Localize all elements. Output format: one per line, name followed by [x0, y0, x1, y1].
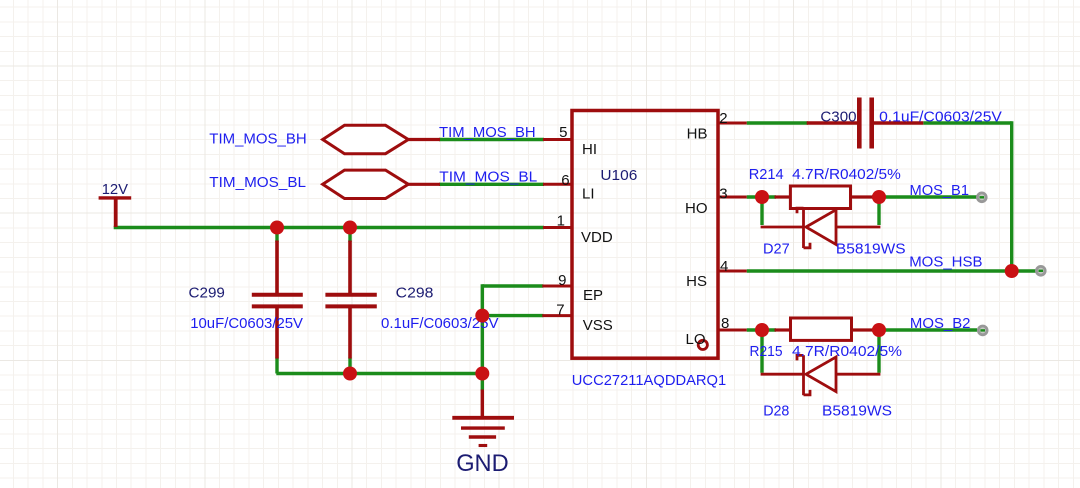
pin number 6 — [561, 172, 569, 189]
wire R214 right to MOS_B1 — [872, 195, 977, 198]
wire ground rail — [276, 372, 482, 375]
pin 3 HO stub — [718, 196, 747, 199]
pin name LI — [582, 186, 595, 203]
pin name HI — [582, 141, 597, 158]
svg-text:MOS_HSB: MOS_HSB — [909, 254, 982, 271]
pin name VDD — [581, 229, 613, 246]
svg-text:EP: EP — [583, 287, 603, 304]
net label TIM_MOS_BL — [439, 169, 537, 186]
pin name HB — [687, 125, 708, 142]
wire HB pin 2 to C300 — [747, 121, 808, 124]
wire TIM_MOS_BH (port to pin 5) — [439, 138, 544, 141]
svg-text:TIM_MOS_BH: TIM_MOS_BH — [209, 131, 306, 148]
svg-text:MOS_B2: MOS_B2 — [910, 315, 971, 332]
svg-text:4.7R/R0402/5%: 4.7R/R0402/5% — [792, 343, 902, 360]
net label TIM_MOS_BH — [439, 124, 536, 141]
pin 1 VDD stub — [543, 226, 572, 229]
port TIM_MOS_BH hexagon — [323, 125, 440, 153]
label 12V power net — [102, 181, 128, 198]
wire TIM_MOS_BL (port to pin 6) — [439, 183, 544, 186]
junction dot ground rail / GND — [475, 367, 489, 381]
pin terminal MOS_HSB — [1036, 266, 1045, 275]
svg-text:GND: GND — [456, 450, 509, 477]
wire D27 left leg — [760, 197, 763, 225]
wire MOS_HSB pin 4 — [747, 269, 1036, 272]
junction dot R215 right — [872, 323, 886, 337]
junction dot VSS wire — [475, 309, 489, 323]
svg-text:4.7R/R0402/5%: 4.7R/R0402/5% — [792, 166, 901, 183]
label R215 value 4.7R/R0402/5% — [792, 343, 902, 360]
pin name VSS — [583, 317, 613, 334]
pin terminal MOS_B1 — [977, 193, 986, 202]
pin number 2 — [719, 110, 727, 127]
svg-text:2: 2 — [719, 110, 727, 127]
wire C298 bottom stub — [348, 358, 351, 374]
capacitor C298 — [325, 241, 376, 359]
pin 6 LI stub — [543, 183, 572, 186]
label C298 value 0.1uF/C0603/25V — [381, 315, 499, 332]
label D28 value B5819WS — [822, 403, 892, 420]
svg-text:9: 9 — [558, 272, 566, 289]
svg-text:B5819WS: B5819WS — [836, 241, 906, 258]
pin number 3 — [719, 185, 727, 202]
pin 5 HI stub — [543, 138, 572, 141]
svg-text:HI: HI — [582, 141, 597, 158]
svg-text:C298: C298 — [396, 284, 434, 301]
resistor R214 — [775, 186, 873, 209]
label C300 value 0.1uF/C0603/25V — [879, 108, 1002, 125]
wire C299 bottom stub — [275, 358, 278, 374]
pin 9 EP stub — [542, 285, 572, 288]
pin name EP — [583, 287, 603, 304]
pin number 5 — [559, 124, 567, 141]
svg-text:10uF/C0603/25V: 10uF/C0603/25V — [190, 315, 303, 332]
svg-text:4: 4 — [720, 258, 728, 275]
wire C300 to top right corner — [923, 121, 1011, 124]
wire D28 left leg — [760, 330, 763, 373]
label D28 designator — [763, 403, 789, 420]
pin number 1 — [557, 212, 565, 229]
pin 4 HS stub — [718, 270, 747, 273]
svg-text:TIM_MOS_BL: TIM_MOS_BL — [439, 169, 537, 186]
svg-text:12V: 12V — [102, 181, 128, 198]
svg-text:R215: R215 — [750, 343, 783, 360]
svg-text:MOS_B1: MOS_B1 — [910, 182, 970, 199]
pin 8 LO stub — [718, 329, 747, 332]
svg-text:5: 5 — [559, 124, 567, 141]
pin name LO — [685, 331, 705, 348]
label GND power net — [456, 450, 509, 477]
wire R215 right to MOS_B2 — [872, 328, 977, 331]
svg-text:C300: C300 — [820, 108, 856, 125]
svg-text:HS: HS — [686, 273, 707, 290]
wire vertical EP to ground rail — [481, 284, 484, 373]
net label MOS_B2 — [910, 315, 971, 332]
ground symbol GND — [452, 390, 514, 446]
label C300 designator — [820, 108, 856, 125]
diode D27 Schottky B5819WS — [761, 208, 881, 248]
pin name HO — [685, 200, 708, 217]
capacitor C299 — [252, 241, 303, 359]
diode D28 Schottky B5819WS — [761, 355, 881, 395]
svg-text:R214: R214 — [749, 166, 784, 183]
svg-text:3: 3 — [719, 185, 727, 202]
pin terminal MOS_B2 — [978, 326, 987, 335]
svg-text:0.1uF/C0603/25V: 0.1uF/C0603/25V — [879, 108, 1002, 125]
svg-text:D28: D28 — [763, 403, 789, 420]
svg-text:LO: LO — [685, 331, 705, 348]
wire VSS pin 7 — [482, 314, 543, 317]
svg-text:B5819WS: B5819WS — [822, 403, 892, 420]
label R214 designator — [749, 166, 784, 183]
label port TIM_MOS_BH — [209, 131, 306, 148]
junction dot R215 left — [755, 323, 769, 337]
wire HO pin 3 — [747, 195, 776, 198]
pin name HS — [686, 273, 707, 290]
pin number 7 — [556, 302, 564, 319]
port TIM_MOS_BL hexagon — [323, 170, 440, 198]
svg-text:6: 6 — [561, 172, 569, 189]
svg-text:TIM_MOS_BL: TIM_MOS_BL — [209, 174, 306, 191]
svg-text:TIM_MOS_BH: TIM_MOS_BH — [439, 124, 536, 141]
wire C299 top stub — [275, 228, 278, 243]
svg-text:D27: D27 — [763, 241, 790, 258]
label C298 designator — [396, 284, 434, 301]
wire vertical HB net down to MOS_HSB — [1010, 121, 1013, 271]
pin 2 HB stub — [718, 122, 747, 125]
pin LO inversion bubble — [698, 340, 707, 349]
capacitor C300 — [807, 98, 924, 149]
wire EP pin 9 — [482, 284, 543, 287]
svg-text:8: 8 — [721, 315, 729, 332]
label D27 value B5819WS — [836, 241, 906, 258]
pin number 4 — [720, 258, 728, 275]
junction dot ground rail / C298 — [343, 367, 357, 381]
svg-text:LI: LI — [582, 186, 595, 203]
wire LO pin 8 — [747, 328, 776, 331]
pin number 8 — [721, 315, 729, 332]
wire D27 right leg — [877, 197, 880, 225]
svg-text:VSS: VSS — [583, 317, 613, 334]
power symbol 12V — [99, 198, 132, 227]
svg-text:1: 1 — [557, 212, 565, 229]
label C299 designator — [189, 284, 225, 301]
pin 7 VSS stub — [542, 314, 572, 317]
pin number 9 — [558, 272, 566, 289]
label port TIM_MOS_BL — [209, 174, 306, 191]
label C299 value 10uF/C0603/25V — [190, 315, 303, 332]
wire 12V rail to VDD pin 1 — [114, 226, 544, 229]
junction dot 12V rail / C299 — [270, 221, 284, 235]
wire GND stem green part — [481, 374, 484, 391]
label U106 part number UCC27211AQDDARQ1 — [572, 372, 726, 389]
op-amp U106 IC body UCC27211AQDDARQ1 — [572, 111, 718, 359]
label R215 designator — [750, 343, 783, 360]
label D27 designator — [763, 241, 790, 258]
wire C298 top stub — [348, 228, 351, 243]
svg-text:HO: HO — [685, 200, 708, 217]
label U106 designator — [600, 167, 637, 184]
svg-text:U106: U106 — [600, 167, 637, 184]
svg-text:VDD: VDD — [581, 229, 613, 246]
label R214 value 4.7R/R0402/5% — [792, 166, 901, 183]
junction dot MOS_HSB — [1005, 264, 1019, 278]
net label MOS_HSB — [909, 254, 982, 271]
svg-text:C299: C299 — [189, 284, 225, 301]
wire D28 right leg — [877, 330, 880, 373]
net label MOS_B1 — [910, 182, 970, 199]
junction dot R214 right — [872, 190, 886, 204]
svg-text:7: 7 — [556, 302, 564, 319]
svg-text:HB: HB — [687, 125, 708, 142]
resistor R215 — [775, 318, 873, 340]
junction dot 12V rail / C298 — [343, 221, 357, 235]
junction dot R214 left — [755, 190, 769, 204]
svg-text:UCC27211AQDDARQ1: UCC27211AQDDARQ1 — [572, 372, 726, 389]
